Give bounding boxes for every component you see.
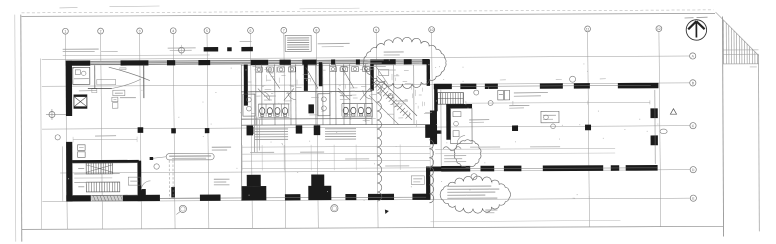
- window in north facade: [412, 59, 422, 61]
- pier block above facade 3: [241, 47, 253, 51]
- north arrow barb left: [688, 21, 696, 29]
- window in north facade: [148, 60, 166, 62]
- dim line above stair room: [73, 138, 137, 140]
- wall: corridor east black: [430, 110, 437, 144]
- sheet bottom border: [22, 226, 724, 229]
- wall: north wall right wing x460-476: [460, 84, 476, 89]
- column at grid 5/C: [205, 128, 210, 133]
- schedule text block 1: [255, 128, 288, 130]
- wall: below stair horizontal black: [446, 104, 472, 108]
- dim line core bottom 1: [242, 145, 430, 148]
- svg-text:11: 11: [586, 27, 590, 31]
- core diagonal 6: [338, 88, 350, 100]
- core partition x291: [290, 64, 292, 124]
- grid line 1 (vertical): [65, 34, 67, 229]
- grid bubble C: [690, 123, 696, 129]
- column at grid C/11: [585, 125, 591, 131]
- lobby corridor wall: [88, 88, 112, 90]
- dim text above elevator: [79, 89, 97, 91]
- right wing note text: [514, 92, 548, 94]
- grid bubble 5: [204, 28, 210, 34]
- window in north facade: [317, 59, 331, 61]
- core door arc 3: [336, 91, 344, 99]
- faint dim line bottom right wing: [430, 220, 620, 222]
- wall: south facade segment x66-90: [66, 195, 91, 201]
- room: stair interior outline: [72, 163, 137, 196]
- dim line right wing 2: [435, 148, 615, 151]
- sheet inner left border: [20, 15, 23, 242]
- core partition x330: [329, 64, 331, 124]
- facade dimension text row 2: [101, 50, 118, 52]
- north arrow barb right: [696, 21, 704, 29]
- wall: corridor upper horiz: [430, 130, 442, 133]
- oval tag 210: [660, 129, 667, 134]
- revision cloud boundary vertical 2: [429, 140, 434, 203]
- sheet outer top border (dashed scan edge): [22, 10, 714, 13]
- grid bubble D: [690, 167, 696, 173]
- lobby tag box 3: [112, 103, 118, 109]
- core door arc 1: [262, 92, 270, 100]
- grid line 5 (vertical): [207, 34, 209, 229]
- core room boundary lines: [240, 65, 243, 200]
- wall: south wall right wing x626-657: [626, 165, 658, 171]
- wall: south wall right wing x441-470: [441, 166, 470, 172]
- grid bubble 8: [313, 27, 319, 33]
- lavatory counter east: [318, 94, 330, 116]
- tag on B line: [570, 76, 576, 82]
- grid bubble 4: [170, 28, 176, 34]
- dim line right wing: [466, 101, 650, 104]
- wall: north facade segment x370-396: [370, 59, 396, 64]
- scan speckle: [202, 135, 205, 138]
- benchmark symbol: [49, 111, 55, 117]
- ramp diagonal 3: [369, 95, 399, 125]
- core diagonal 8: [376, 66, 388, 84]
- black wall piece top right of core: [425, 125, 436, 138]
- wall: north facade segment x331-336: [331, 59, 335, 64]
- lobby curved wall lower: [112, 79, 141, 88]
- column at grid 3/C: [138, 127, 144, 133]
- wc fixtures along north wall: [256, 67, 263, 72]
- tag circle room 104: [154, 164, 159, 169]
- room tag right of stair: [128, 177, 140, 185]
- door arc right wing: [457, 136, 465, 144]
- pier at grid 6 south: [241, 186, 266, 200]
- lavatory counter west: [243, 94, 255, 116]
- wall: south facade segment x412-430: [412, 194, 430, 200]
- dim text right wing: [470, 146, 500, 148]
- tel room box: [541, 111, 559, 123]
- blast door text: [469, 119, 489, 121]
- svg-text:E: E: [692, 197, 695, 201]
- right wing note text 2: [509, 104, 529, 106]
- svg-text:9: 9: [375, 28, 377, 32]
- facade dimension text row 1: [63, 48, 99, 50]
- revision delta triangle: [670, 109, 676, 115]
- stair landing lines: [74, 173, 119, 175]
- grid bubble 10: [429, 27, 435, 33]
- vertical text column west of core: [253, 117, 255, 153]
- grid bubble A: [690, 53, 696, 59]
- wall: west end upper: [66, 61, 72, 116]
- wall: north facade segment x280-291: [280, 60, 291, 65]
- ramp diagonal 1: [372, 80, 412, 120]
- lobby tag box 2: [112, 97, 118, 102]
- note text small: [444, 155, 466, 157]
- window in north facade: [396, 59, 404, 61]
- revision cloud top: [363, 37, 446, 88]
- grid tag bottom 3.5: [179, 205, 186, 212]
- core partition x316: [315, 64, 317, 124]
- core diagonal 4: [258, 89, 270, 101]
- revision cloud boundary vertical: [377, 84, 382, 201]
- grid line 4 (vertical): [173, 34, 175, 229]
- dim line core bottom 2: [242, 152, 430, 155]
- wall tag pill: [120, 68, 126, 70]
- black flag marker: [385, 209, 389, 214]
- wall: east end segment y110-119: [650, 108, 657, 118]
- fixture marks right wing: [453, 112, 461, 117]
- north arrow circle: [686, 20, 706, 40]
- wall: south facade segment x200-220: [200, 195, 221, 201]
- stair right wing: [438, 93, 464, 105]
- wall: south wall right wing x611-619: [611, 165, 619, 171]
- shaft black blob: [308, 104, 314, 113]
- black column top of schedule 1: [247, 126, 254, 136]
- vestibule text: [396, 100, 408, 102]
- wall: lobby west partition: [94, 65, 96, 88]
- south wall thin segment: [160, 197, 200, 199]
- pier cap below stair divider: [138, 189, 146, 195]
- wall: stair room right: [137, 161, 141, 202]
- vestibule tag a: [379, 69, 389, 75]
- wall: north wall right wing x540-563: [540, 83, 563, 89]
- lobby tag box: [113, 90, 125, 96]
- north arrow label marks: [685, 17, 694, 19]
- lobby curved wall upper: [109, 67, 150, 81]
- core partition x296: [295, 64, 297, 124]
- sheet corner hatch lines: [723, 20, 725, 64]
- grid tag bottom 8.5: [331, 205, 338, 212]
- core diagonal 3: [342, 67, 354, 88]
- tag circle on facade dim: [179, 47, 185, 53]
- dim line core bottom 3: [242, 159, 430, 162]
- core partition x323: [322, 64, 324, 124]
- wall: north facade segment x422-430: [422, 59, 429, 64]
- sheet corner hatch cross line 1: [723, 49, 759, 51]
- tick marks above B wall: [500, 79, 506, 81]
- sheet corner hatch bottom line: [723, 63, 759, 65]
- wall: south facade segment x123-160: [123, 195, 160, 201]
- pier block above facade 2: [227, 47, 232, 51]
- core diagonal 5: [284, 88, 294, 100]
- window in north facade: [335, 59, 356, 61]
- room below stair: [451, 108, 473, 143]
- note pill: access to fire dept: [166, 153, 214, 160]
- core partition x350: [349, 64, 351, 124]
- column at grid C/10.5: [512, 125, 518, 131]
- wall: north facade segment x302-317: [302, 60, 316, 65]
- column at grid 6/C: [249, 127, 253, 134]
- wall: south facade segment x368-394: [368, 194, 394, 200]
- bottom note text: [447, 185, 491, 187]
- wall: north facade segment x199-210: [198, 60, 210, 65]
- wall: east end segment y137-146: [651, 135, 658, 145]
- wall: room west black vertical: [446, 108, 450, 139]
- grid line C (horizontal): [42, 126, 690, 129]
- wall: north wall right wing x574-590: [574, 83, 590, 88]
- dashed opening: [168, 160, 170, 199]
- toilet fixtures: [75, 70, 80, 75]
- tiny marks top left above border: [59, 7, 77, 9]
- door arc at stair room: [141, 181, 150, 190]
- schedule text block 2: [325, 128, 356, 130]
- grid line 2 (vertical): [101, 34, 103, 229]
- wall: stair room top: [72, 160, 139, 163]
- cloud interior text: [384, 51, 404, 53]
- wall: south wall right wing x543-603: [543, 165, 603, 171]
- svg-text:5: 5: [206, 29, 208, 33]
- grid line 12 (vertical): [659, 32, 661, 227]
- tag circle left of stair: [55, 135, 60, 140]
- bottom note label: [485, 209, 497, 211]
- grid bubble 1: [62, 28, 68, 34]
- north arrow shaft: [695, 22, 697, 37]
- grid line 7 (vertical): [284, 33, 286, 228]
- core clutter texture: [303, 74, 309, 76]
- window in north facade: [291, 59, 302, 61]
- ramp treads: [372, 80, 377, 85]
- grid line 6 (vertical): [251, 33, 253, 228]
- window in north facade: [210, 60, 250, 62]
- grid line 10 (vertical): [432, 33, 434, 228]
- grid bubble 7: [281, 27, 287, 33]
- core partition x256: [255, 65, 257, 125]
- sheet corner diagonal cut: [716, 12, 759, 56]
- handwriting mark: [443, 147, 461, 151]
- wall: north facade segment x356-360: [356, 59, 360, 64]
- stair treads lower flight: [86, 182, 120, 192]
- window in north facade: [175, 60, 198, 62]
- grid bubble 3: [137, 28, 143, 34]
- pier at grid 8 south: [308, 186, 331, 200]
- grid line A (horizontal): [42, 56, 690, 59]
- tag below D line: [471, 174, 477, 180]
- window in north facade: [268, 59, 279, 61]
- wall: north facade segment x121-149: [121, 60, 149, 65]
- tiny marks below hatch: [750, 66, 757, 68]
- core diagonal 7: [360, 88, 370, 100]
- core small text marks: [264, 95, 276, 97]
- grid bubble E: [690, 195, 696, 201]
- pier block above facade 1: [204, 47, 219, 51]
- small marks above grid 6: [240, 41, 252, 43]
- wall: core black partition 1: [244, 65, 248, 106]
- note text mid 3: [214, 178, 230, 180]
- core diagonal 2: [306, 67, 318, 88]
- tag circle 2 right wing: [488, 101, 493, 106]
- ramp diagonal 2: [377, 76, 417, 116]
- toilet stall row west: [258, 103, 289, 105]
- small text lobby: [120, 97, 136, 99]
- facade band grey underlay: [66, 59, 430, 65]
- dim ticks core bottom: [241, 145, 243, 170]
- equip tag box: [498, 90, 504, 100]
- grid line D (horizontal): [60, 170, 690, 173]
- core door arc 2: [288, 92, 296, 100]
- svg-text:3: 3: [139, 29, 141, 33]
- sheet inner top border: [22, 13, 715, 16]
- svg-text:8: 8: [315, 29, 317, 33]
- grid bubble 6: [248, 27, 254, 33]
- wall: north facade segment x66-90: [66, 60, 91, 65]
- door tags right wing: [544, 115, 549, 120]
- leader to pill: [151, 157, 166, 159]
- wall: jog vertical at grid 10: [426, 167, 430, 200]
- wall: core black partition 4: [370, 64, 374, 91]
- svg-text:D: D: [692, 168, 695, 172]
- window in north facade: [360, 59, 370, 61]
- core partition x372: [371, 64, 373, 124]
- wall: north wall right wing x618-659: [618, 83, 659, 89]
- vestibule tag b: [382, 84, 387, 89]
- dim labels core bottom: [250, 151, 274, 153]
- wall: vestibule west black: [427, 59, 431, 86]
- svg-text:C: C: [692, 124, 695, 128]
- dim line core bottom 4: [242, 167, 430, 170]
- room: toilet top-left: [73, 67, 90, 84]
- core partition x344: [343, 64, 345, 124]
- svg-text:10: 10: [430, 28, 434, 32]
- stair treads upper flight: [86, 163, 113, 174]
- black column top of schedule 3: [314, 125, 321, 135]
- south colonnade sill line: [220, 196, 430, 199]
- svg-text:1: 1: [64, 30, 66, 34]
- grid bubble 9: [373, 27, 379, 33]
- core partition x336: [335, 64, 337, 124]
- left property line: [40, 59, 43, 230]
- vestibule verticals: [393, 65, 395, 124]
- facade dimension text 3: [168, 47, 196, 49]
- wall: north facade segment x251-268: [251, 60, 269, 65]
- stair up arrow: [78, 167, 84, 169]
- core partition x262: [261, 65, 263, 125]
- svg-text:7: 7: [283, 29, 285, 33]
- sill line right wing north: [452, 84, 651, 87]
- note text mid 1: [212, 146, 231, 148]
- wall: jog corner: [426, 166, 442, 171]
- column at grid 4/C: [171, 128, 176, 133]
- revision cloud bottom note: [440, 176, 510, 213]
- sheet right border: [722, 17, 725, 237]
- wall: core black partition 3: [319, 62, 323, 86]
- wall: north wall right wing x485-498: [485, 84, 498, 89]
- wall: lobby east partition: [143, 65, 145, 98]
- grid line 8 (vertical): [316, 33, 318, 228]
- dimension line above facade: [63, 54, 210, 57]
- wall: south wall right wing x480-494: [480, 166, 494, 172]
- grid bubble B: [690, 80, 696, 86]
- wall: west end lower: [66, 142, 72, 202]
- wall: stair right wing west black: [434, 87, 438, 111]
- dim text above wall right: [318, 42, 350, 44]
- grid bubble 12: [656, 26, 662, 32]
- corridor line east of core: [440, 90, 442, 166]
- controls tag box: [411, 176, 424, 185]
- window in north facade: [90, 60, 120, 62]
- svg-text:6: 6: [250, 29, 252, 33]
- svg-text:B: B: [692, 81, 695, 85]
- wall: core black partition 2: [304, 64, 308, 91]
- elevator shaft: [74, 95, 87, 109]
- wall: south wall right wing x504-521: [504, 166, 522, 172]
- sheet corner hatch cross line 2: [723, 53, 759, 55]
- small cloud mid: [454, 140, 481, 168]
- core partition x275: [274, 64, 276, 124]
- sheet far-right edge line: [758, 54, 761, 231]
- vent hatch in south wall: [92, 196, 123, 201]
- door jamb black at corridor: [171, 187, 175, 198]
- fixture boxes above stair: [78, 145, 86, 151]
- keynote box above facade: [285, 35, 311, 51]
- grid line 9 (vertical): [376, 33, 378, 228]
- lobby room box: [97, 79, 116, 84]
- core diagonal 1: [266, 67, 280, 88]
- sheet outer left border: [14, 15, 17, 242]
- tag circle 1 right wing: [474, 90, 479, 95]
- wall: north facade segment x404-412: [404, 59, 412, 64]
- svg-text:12: 12: [657, 27, 661, 31]
- wall: north wall right wing x434-452: [434, 84, 452, 89]
- tiny marks top mid: [300, 7, 360, 10]
- note text mid 2: [212, 149, 227, 151]
- grid line 3 (vertical): [140, 34, 142, 229]
- east end sill line: [654, 90, 656, 164]
- toilet stall row east: [342, 103, 373, 105]
- svg-text:2: 2: [100, 29, 102, 33]
- grid line E (horizontal): [42, 198, 690, 201]
- grid line 11 (vertical): [588, 32, 590, 227]
- grid bubble 11: [585, 26, 591, 32]
- wall: south facade segment x345-356: [345, 194, 356, 200]
- grid bubble 2: [98, 28, 104, 34]
- core door arc 4: [363, 90, 372, 99]
- svg-text:4: 4: [172, 29, 174, 33]
- west wall face line: [62, 146, 64, 201]
- grid line B (horizontal): [42, 83, 690, 86]
- wall: north facade segment x167-176: [167, 60, 175, 65]
- sill line right wing south: [441, 167, 657, 170]
- note text core mid: [320, 98, 332, 100]
- black column top of schedule 2: [296, 125, 303, 133]
- svg-text:A: A: [692, 54, 695, 58]
- core partition x366: [365, 64, 367, 124]
- wall: south facade segment x285-300: [285, 194, 301, 200]
